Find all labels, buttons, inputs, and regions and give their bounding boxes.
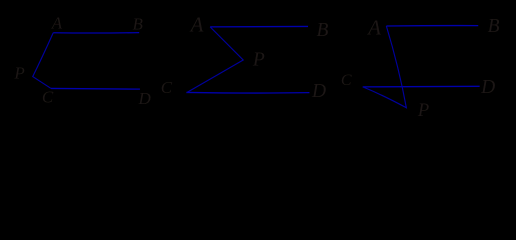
- svg-text:P: P: [13, 63, 24, 82]
- svg-text:B: B: [133, 14, 144, 33]
- svg-text:C: C: [42, 88, 54, 107]
- svg-text:P: P: [417, 101, 429, 121]
- svg-text:B: B: [488, 16, 500, 37]
- svg-text:A: A: [189, 12, 204, 36]
- svg-text:B: B: [317, 20, 329, 41]
- svg-text:D: D: [480, 77, 495, 98]
- svg-text:C: C: [341, 72, 352, 89]
- svg-text:D: D: [138, 89, 152, 108]
- svg-text:A: A: [51, 14, 63, 33]
- svg-text:A: A: [366, 15, 381, 39]
- svg-text:P: P: [252, 50, 265, 71]
- svg-text:C: C: [161, 78, 173, 97]
- svg-text:D: D: [311, 81, 326, 102]
